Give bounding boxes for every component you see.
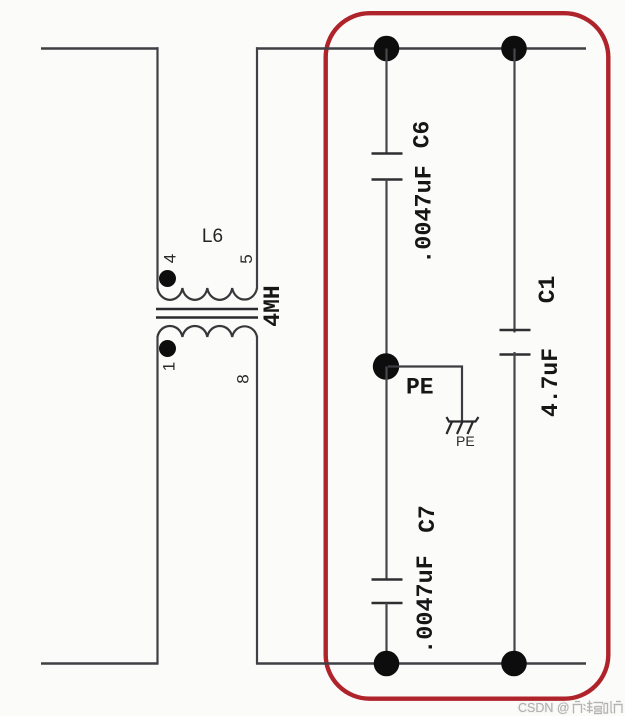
- svg-text:8: 8: [234, 374, 253, 383]
- svg-text:PE: PE: [456, 433, 475, 449]
- wire: bottom-left AC line input: [41, 662, 159, 664]
- svg-text:C1: C1: [535, 276, 561, 304]
- svg-text:4: 4: [161, 254, 180, 263]
- svg-text:1: 1: [160, 362, 179, 371]
- wire: vertical from L6 pin 8 down to bottom rail: [256, 336, 258, 665]
- svg-text:CSDN @: CSDN @: [518, 701, 570, 715]
- wire: top-left AC line input: [41, 47, 159, 49]
- svg-text:5: 5: [237, 254, 256, 263]
- inductor L6 winding pins 1-8 (bottom winding): [158, 326, 258, 337]
- svg-text:4MH: 4MH: [260, 285, 286, 326]
- wire: C1 bottom lead: [513, 352, 515, 664]
- svg-text:4.7uF: 4.7uF: [538, 348, 564, 417]
- svg-text:.0047uF: .0047uF: [413, 555, 440, 654]
- svg-text:.0047uF: .0047uF: [412, 165, 439, 264]
- highlight box: X/Y capacitor filter section: [326, 13, 609, 699]
- ground: PE chassis earth symbol: [447, 417, 479, 434]
- wire: C1 top lead: [513, 49, 515, 333]
- svg-text:PE: PE: [406, 375, 434, 401]
- svg-text:C6: C6: [410, 121, 436, 149]
- wire: top rail: [256, 47, 586, 49]
- L6 core line upper: [156, 308, 258, 311]
- capacitor C7: [372, 580, 403, 604]
- node: bottom rail / C1 junction: [501, 651, 527, 677]
- capacitor C6: [372, 154, 403, 180]
- wire: PE branch horizontal: [388, 365, 463, 367]
- wire: C7 bottom lead: [385, 603, 387, 664]
- node: top rail / C6 junction: [374, 36, 400, 62]
- node: top rail / C1 junction: [501, 36, 527, 62]
- wire: left vertical from input down to L6 pin 4: [156, 47, 158, 289]
- L6 pin 4 polarity dot: [159, 270, 176, 287]
- wire: bottom rail: [256, 662, 586, 664]
- node: bottom rail / C7 junction: [374, 651, 400, 677]
- capacitor C1: [500, 330, 531, 355]
- wire: C6 bottom lead down to PE node: [385, 180, 387, 367]
- svg-text:L6: L6: [202, 226, 223, 247]
- wire: vertical from L6 pin 5 up to top rail: [256, 47, 258, 289]
- wire: left vertical from L6 pin 1 down to bottom rail: [156, 336, 158, 665]
- svg-text:C7: C7: [415, 505, 441, 533]
- wire: C7 top lead from PE node: [385, 367, 387, 580]
- node PE junction: [373, 353, 399, 379]
- L6 pin 1 polarity dot: [159, 340, 176, 357]
- L6 core line lower: [156, 316, 258, 319]
- inductor L6 winding pins 4-5 (top winding): [158, 288, 258, 300]
- wire: PE branch vertical: [461, 366, 463, 422]
- watermark CSDN: [518, 701, 622, 716]
- wire: C6 top lead: [385, 49, 387, 154]
